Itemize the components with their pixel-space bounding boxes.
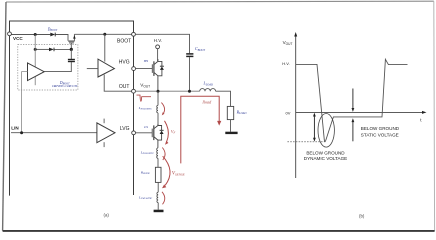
arrow static above — [352, 89, 354, 109]
IC box U-gate-driver outline — [10, 21, 134, 196]
diode D2 — [49, 48, 54, 52]
svg-text:VF: VF — [171, 129, 176, 135]
svg-text:LPARASITIC: LPARASITIC — [138, 196, 153, 201]
wire VCC rail — [11, 34, 50, 36]
graph axis t — [296, 111, 424, 113]
node VCC junction — [34, 33, 37, 36]
transistor Q2 LS IGBT — [152, 124, 161, 148]
svg-text:BELOW GROUND: BELOW GROUND — [361, 126, 400, 131]
red arc 2 — [162, 148, 165, 161]
svg-text:VOUT: VOUT — [140, 83, 150, 89]
wire RLOAD to ground — [230, 120, 232, 132]
svg-text:LVG: LVG — [120, 126, 130, 132]
svg-text:LS: LS — [143, 125, 148, 129]
capacitor C1 — [44, 49, 75, 71]
node CBOOT junction — [188, 90, 191, 93]
red arc VF arrow — [165, 121, 169, 142]
op-amp U1 buffer — [28, 63, 45, 81]
wire VOUT rail — [136, 90, 200, 92]
dashed level line — [287, 141, 326, 143]
inductor LLOAD — [200, 89, 216, 92]
node LIN junction — [20, 131, 23, 134]
waveform VOUT — [296, 59, 408, 141]
capacitor CBOOT — [186, 54, 193, 91]
svg-text:DYNAMIC VOLTAGE: DYNAMIC VOLTAGE — [304, 156, 347, 161]
svg-text:LPARASITIC: LPARASITIC — [138, 106, 153, 111]
wire LIN to U1 input — [22, 72, 28, 133]
wire LPAR2 to RSENSE — [157, 158, 159, 167]
svg-text:H.V.: H.V. — [154, 38, 162, 43]
node row2 left junction — [34, 48, 37, 51]
inductor LPARASITIC 3 — [157, 192, 158, 202]
red arc 3 — [162, 192, 165, 205]
red arc VSENSE arrow — [163, 156, 170, 185]
arrow dynamic depth — [313, 114, 315, 141]
svg-text:(a): (a) — [104, 212, 110, 217]
svg-text:RSENSE: RSENSE — [140, 170, 151, 175]
wire BOOT to CBOOT — [136, 34, 190, 53]
svg-text:BELOW GROUND: BELOW GROUND — [306, 151, 345, 156]
wire HV to HS collector — [157, 49, 159, 61]
svg-text:DBOOT: DBOOT — [47, 27, 58, 32]
transistor M1 current source — [68, 34, 74, 49]
wire HVG to HS gate — [136, 68, 152, 70]
red load current path Iload — [181, 96, 219, 163]
pin OUT — [132, 89, 136, 93]
svg-text:H.V.: H.V. — [282, 61, 289, 66]
wire LVG to LS gate — [136, 132, 152, 134]
wire LLOAD to RLOAD — [216, 91, 231, 106]
op-amp U2 HVG driver — [87, 34, 132, 91]
diode DBOOT — [50, 33, 55, 37]
svg-text:LPARASITIC: LPARASITIC — [140, 150, 155, 155]
svg-text:DRIVING CIRCUIT: DRIVING CIRCUIT — [51, 84, 77, 88]
ground load — [225, 132, 237, 134]
inductor LPARASITIC 2 — [157, 148, 158, 158]
dashed box DBOOT driving circuit — [18, 45, 78, 90]
red arc 1 — [161, 103, 164, 115]
pin VCC — [8, 32, 12, 36]
wire VCC branch vertical — [34, 35, 36, 86]
node row2 right junction — [70, 48, 73, 51]
pin LVG — [132, 131, 136, 135]
svg-text:LIN: LIN — [11, 126, 19, 131]
wire to BOOT pin — [74, 33, 131, 35]
pin HVG — [132, 67, 136, 71]
wire VCC rail after diode to mosfet — [56, 35, 68, 41]
transistor Q1 HS IGBT — [152, 59, 162, 91]
graph axis V — [295, 36, 297, 179]
wire LPAR3 to ground — [157, 203, 159, 210]
wire VOUT to LPAR1 — [157, 91, 159, 105]
ellipse highlight — [318, 114, 334, 148]
svg-text:VOUT: VOUT — [283, 40, 293, 46]
wire LPAR1 to LS — [157, 113, 159, 125]
svg-text:HS: HS — [143, 59, 149, 63]
svg-text:HVG: HVG — [119, 60, 130, 66]
svg-text:(b): (b) — [359, 214, 365, 219]
resistor RSENSE — [155, 167, 161, 182]
svg-text:STATIC VOLTAGE: STATIC VOLTAGE — [361, 133, 399, 138]
wire LIN — [11, 132, 97, 134]
red glitch on VOUT — [137, 95, 152, 101]
terminal H.V. — [156, 45, 160, 49]
ground sense — [154, 210, 164, 213]
svg-text:0V: 0V — [286, 110, 291, 115]
svg-text:VSENSE: VSENSE — [172, 172, 186, 177]
wire RSENSE to LPAR3 — [157, 182, 159, 192]
resistor RLOAD — [227, 106, 233, 119]
svg-text:VCC: VCC — [13, 36, 23, 41]
svg-text:Iload: Iload — [201, 99, 212, 104]
pin BOOT — [132, 32, 136, 36]
op-amp U3 LVG driver — [97, 119, 115, 148]
inductor LPARASITIC 1 — [157, 105, 158, 113]
node VOUT junction — [157, 90, 160, 93]
wire row2 — [35, 48, 49, 50]
arrow static below — [352, 122, 354, 142]
node BOOT rail junction — [103, 33, 106, 36]
svg-text:BOOT: BOOT — [117, 39, 131, 45]
svg-text:OUT: OUT — [119, 84, 130, 90]
